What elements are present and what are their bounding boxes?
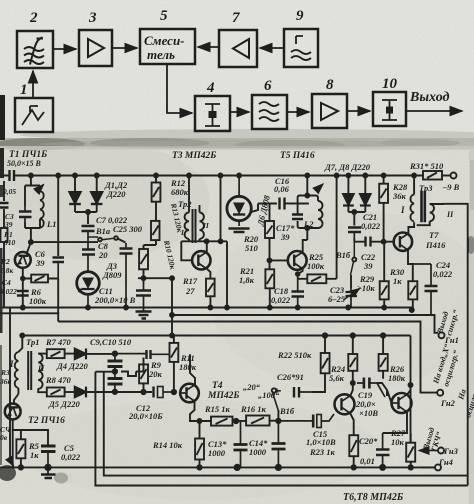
bus D corner down right — [410, 336, 412, 444]
resistor R25 — [298, 274, 337, 283]
wire T5 base — [270, 259, 289, 261]
label C3 — [4, 212, 14, 229]
junction R17 bus A — [208, 306, 212, 310]
label R29 — [357, 274, 375, 293]
capacitor C9 — [108, 354, 123, 372]
junction D3 bottom — [86, 306, 128, 310]
diode D1 — [69, 192, 81, 212]
left edge input chain — [3, 181, 5, 308]
block 4 detector symbol — [205, 104, 220, 126]
label R23 — [309, 447, 336, 457]
junction R20 base — [268, 258, 272, 262]
label C25 — [113, 224, 143, 234]
block 2 box — [17, 31, 53, 68]
capacitor C19 series — [357, 378, 385, 398]
block 3 amp triangle — [88, 39, 104, 57]
junction rail D6 — [237, 174, 241, 178]
resistor R22 — [321, 333, 330, 373]
label R8 — [45, 375, 72, 385]
diode D7 — [343, 194, 354, 212]
wire T7 collector to Tr3 — [408, 222, 414, 233]
wire T6 emitter to R23 — [350, 413, 354, 435]
resistor R31 — [423, 171, 442, 180]
label T3 — [172, 151, 216, 161]
wire busD left drop to Tr1 — [18, 334, 24, 353]
label R20 — [243, 234, 259, 253]
resistor R17 — [206, 279, 215, 308]
capacitor C6 — [53, 258, 65, 279]
label R31 — [409, 161, 444, 171]
label R30 — [389, 267, 405, 286]
junction Tr2 I top — [187, 174, 191, 178]
label R9 — [148, 360, 163, 379]
label R5 — [28, 441, 40, 460]
junction C9 C10 node — [95, 369, 117, 373]
junction R32 busA — [410, 308, 414, 312]
label Gn1 — [444, 335, 459, 345]
junction rail-L1 — [29, 174, 33, 178]
wire T8 collector — [408, 383, 413, 394]
junction R21 busA — [268, 306, 272, 310]
junction R11 bottom — [172, 390, 176, 394]
label R1 — [3, 230, 16, 247]
label II tr2 — [202, 221, 210, 230]
block 8 box — [312, 94, 347, 128]
label R16 — [240, 404, 267, 414]
label B1b — [335, 250, 351, 260]
terminal Gn2 — [437, 390, 443, 396]
junction T1 emitter busA — [21, 277, 25, 310]
label 4 — [206, 80, 215, 96]
capacitor C10b plates — [115, 350, 170, 359]
label D4 — [56, 361, 88, 371]
capacitor C5 — [41, 444, 56, 470]
resistor R14 — [195, 421, 204, 470]
capacitor C1 series in rail — [10, 170, 15, 181]
label 2 — [29, 10, 38, 26]
wire C6 column — [57, 176, 59, 257]
transistor T3 — [192, 251, 210, 269]
label R12 — [170, 178, 189, 197]
ground below C11 — [136, 312, 152, 319]
wire T1 base to switch row — [27, 242, 98, 253]
label R2 — [0, 257, 13, 275]
label -9V — [442, 182, 460, 192]
label R7 — [45, 337, 72, 347]
label R15 — [204, 404, 231, 414]
label T5 — [280, 151, 315, 161]
junction T1 base node — [29, 240, 33, 244]
label C8 — [98, 241, 109, 260]
capacitor C21 — [348, 228, 361, 239]
wire T3 emitter to R17 — [207, 269, 211, 279]
wire right column from rail — [335, 174, 339, 279]
wire branch x220 — [219, 174, 223, 244]
label D7D8 — [324, 162, 371, 172]
transistor T4 — [180, 384, 199, 403]
label T4 — [207, 381, 239, 401]
resistor R11 — [170, 336, 179, 393]
terminal Gn1 — [439, 332, 445, 338]
label C11 — [94, 286, 136, 305]
junction C10 bottom — [113, 390, 117, 394]
label L1 — [46, 219, 56, 229]
label R3 — [0, 368, 12, 386]
frame outer left vertical — [95, 372, 467, 486]
resistor R28 — [379, 174, 388, 242]
block 1 sweep symbol — [22, 106, 44, 125]
transistor T6 — [335, 394, 355, 414]
label R21 — [239, 266, 255, 285]
block 1 box — [15, 98, 53, 132]
resistor R20 — [265, 204, 274, 270]
capacitor C7 — [82, 226, 95, 237]
label Gn3 — [443, 446, 459, 456]
transformer Tr3 winding II — [417, 204, 443, 225]
output text — [409, 90, 450, 105]
block 4 box — [195, 96, 230, 131]
label C14 — [249, 438, 268, 457]
label D6rot — [255, 194, 272, 228]
capacitor C12 electrolytic — [152, 387, 174, 398]
label C17 — [276, 223, 295, 242]
label K28 — [392, 182, 408, 201]
transformer Tr2 core — [193, 209, 196, 243]
resistor R16 — [246, 416, 278, 426]
label C4b — [0, 425, 11, 442]
label B1a — [95, 226, 111, 236]
junction R30 busA — [382, 306, 386, 310]
transistor T8 — [392, 393, 412, 413]
wire left border down — [9, 308, 11, 464]
label II tr1 — [37, 364, 45, 373]
mixer text — [144, 33, 185, 62]
transformer Tr1 core — [28, 351, 31, 390]
label out gkch rot — [421, 426, 444, 453]
label R6 — [29, 287, 47, 306]
capacitor C22 series — [366, 237, 371, 247]
junction C23 busA — [346, 306, 350, 310]
block 3 box — [79, 30, 112, 66]
resistor R12 — [152, 183, 161, 202]
label out sync rot — [435, 309, 461, 337]
wire D8 branch — [363, 174, 367, 194]
block 7 box — [219, 30, 257, 67]
wire C26 to R22 — [312, 373, 325, 392]
frame right border — [443, 204, 468, 486]
wire 5 to 4 — [167, 64, 192, 113]
wire D1 branch — [73, 174, 77, 192]
ground below D6 — [229, 229, 250, 233]
wire C16 row — [251, 204, 309, 213]
label Gn2 — [440, 398, 456, 408]
wire node C11 top — [138, 276, 175, 283]
block 6 box — [252, 95, 287, 129]
switch B1b-2 range — [272, 388, 279, 421]
trimmer arrow on L1 — [36, 185, 44, 193]
transformer Tr2 winding I — [185, 176, 189, 242]
label 005 — [3, 187, 16, 196]
label 3 — [88, 10, 97, 26]
junction C18 busA — [296, 272, 300, 309]
label I tr2 — [180, 228, 185, 237]
arrow 2 to 3 — [53, 48, 76, 50]
switch B1b — [351, 242, 357, 288]
emitter arrow T2 — [10, 460, 14, 466]
block 2 tuner symbol — [24, 38, 44, 65]
capacitor C18 — [292, 269, 305, 308]
capacitor C1a left — [0, 203, 9, 208]
transformer Tr3 winding I — [410, 174, 416, 222]
label R27 — [390, 428, 406, 447]
block 5 box (mixer) — [140, 29, 195, 64]
resistor R26 — [379, 333, 388, 379]
zener D3 — [77, 272, 100, 308]
label R11 — [179, 353, 197, 372]
block 6 filter symbol — [259, 102, 279, 121]
resistor R27 potentiometer — [406, 433, 415, 470]
capacitor C15 electrolytic — [278, 414, 334, 428]
arrow 4 to 6 — [230, 111, 249, 113]
capacitor C11 electrolytic — [136, 283, 151, 312]
trimmer arrow L2 — [316, 184, 323, 191]
label C16 — [274, 176, 290, 194]
label C13 — [208, 439, 227, 458]
wire branch x227 to busA — [221, 241, 230, 309]
block 10 detector symbol — [382, 100, 397, 120]
resistor R10 — [139, 249, 148, 269]
capacitor C26 — [277, 387, 312, 398]
resistor R13 — [151, 221, 160, 240]
bus A mid horizontal — [2, 307, 412, 309]
label C5 — [61, 443, 81, 462]
resistor R30 — [380, 242, 389, 308]
label R10rot — [162, 238, 178, 270]
label I tr3 — [400, 205, 405, 215]
wire T7 base row — [354, 238, 393, 242]
label D1D2 — [104, 180, 128, 199]
label Tr1 — [26, 337, 39, 347]
label sw100 — [258, 390, 280, 400]
wire D2 branch — [95, 174, 99, 192]
label R22 — [277, 350, 312, 360]
wire T6 collector — [351, 371, 355, 396]
label na osc rot — [456, 384, 474, 419]
label osc X rot — [431, 343, 461, 388]
arrow 9 to 7 — [260, 47, 284, 49]
diode D2 — [91, 192, 103, 212]
bus B left jog to bus C — [0, 313, 58, 321]
capacitor C2 tank — [19, 206, 32, 223]
block 10 box — [373, 92, 406, 126]
block numbers — [20, 8, 398, 98]
arrow Gn3 to R27 — [419, 450, 438, 452]
transformer Tr1 winding II — [38, 354, 47, 393]
wire T1 emitter down — [22, 268, 24, 308]
ground bus bottom — [0, 466, 435, 468]
wire D7 D8 node — [348, 210, 365, 226]
label R13rot — [169, 201, 185, 233]
label R17 — [182, 276, 198, 296]
label 1 — [20, 82, 28, 98]
arrow 8 to 10 — [347, 110, 370, 112]
label C6 — [35, 249, 46, 268]
label R24 — [329, 364, 345, 383]
resistor R24 — [348, 333, 357, 371]
label L2 — [303, 219, 314, 229]
resistor R5 — [16, 439, 25, 469]
wire T8 emitter — [383, 412, 407, 434]
resistor R21 — [265, 269, 274, 307]
label II tr3 — [446, 210, 454, 219]
capacitor C10 — [108, 372, 123, 392]
block 9 box — [284, 29, 318, 67]
label C21 — [361, 212, 381, 231]
label Tr3 — [419, 183, 433, 193]
diode D8 — [360, 194, 371, 212]
label C24 — [433, 260, 453, 279]
resistor R15 — [211, 417, 246, 426]
label sw20 — [243, 382, 261, 392]
inductor L2 tank — [285, 176, 323, 241]
wire T4 collector up — [190, 354, 195, 384]
transistor T5 — [288, 251, 307, 270]
frame inner left vertical — [104, 372, 468, 476]
resistor R32 emitter — [408, 281, 417, 312]
resistor R9 — [139, 364, 148, 394]
junction rail-C6 — [56, 174, 60, 178]
wire D7 branch — [346, 174, 350, 194]
label R14 — [152, 440, 183, 450]
wire Tr1-I bottom to T2 — [14, 394, 18, 404]
junction rail L2 — [305, 174, 309, 231]
label T2 — [28, 416, 65, 426]
block 9 generator symbol — [291, 36, 311, 60]
trimmer C23 — [344, 288, 360, 308]
transformer Tr3 core — [422, 191, 425, 222]
label R26 — [388, 364, 406, 383]
block 7 amp triangle left — [233, 39, 249, 58]
label 6 — [264, 78, 272, 94]
wire T8 base from C19 — [377, 383, 392, 403]
label R25 — [307, 252, 325, 271]
label C22 — [361, 252, 376, 271]
label Tr2 — [178, 199, 192, 209]
junction R15 R16 — [234, 419, 238, 423]
resistor R7 — [47, 349, 75, 358]
label C7 — [96, 215, 128, 225]
capacitor C4 — [17, 291, 29, 296]
resistor R1 left — [1, 228, 8, 242]
label C26 — [277, 372, 304, 382]
capacitor C24 — [413, 264, 438, 315]
arrow 6 to 8 — [287, 111, 309, 113]
label C19 — [355, 390, 378, 418]
label 10 — [382, 76, 398, 92]
wire T7 emitter — [408, 250, 413, 281]
label D5 — [48, 399, 80, 409]
transistor T1 — [15, 252, 31, 268]
label 9 — [296, 8, 304, 24]
top supply rail — [2, 175, 451, 177]
label 5 — [160, 8, 168, 24]
caption T6T8 — [343, 492, 404, 503]
capacitor C13 — [234, 421, 248, 470]
junction D4 line — [113, 351, 117, 355]
resistor R23 — [349, 435, 358, 469]
wire T3 collector up — [206, 241, 208, 252]
arrow 7 to 5 — [198, 46, 219, 48]
label B1b2 — [279, 406, 295, 416]
label C15 — [306, 429, 336, 447]
label C18 — [271, 286, 291, 305]
capacitor C14 — [272, 421, 286, 470]
resistor R6 — [23, 275, 58, 314]
label C20 — [359, 436, 378, 466]
capacitor C16 — [280, 198, 285, 210]
capacitor C8 — [82, 237, 95, 271]
ground below C5 — [41, 467, 56, 478]
junction R28 base row — [382, 240, 386, 244]
label C4 — [0, 278, 17, 296]
wire R12 column — [144, 174, 159, 279]
label 8 — [326, 77, 334, 93]
arrow 1 to 2 — [32, 71, 34, 98]
label I tr1 — [9, 359, 14, 369]
wire C9 node to R9 — [121, 358, 144, 377]
label C12 — [128, 403, 163, 421]
capacitor C20 — [376, 433, 390, 470]
bus D horizontal — [22, 335, 410, 337]
inductor L1 — [25, 186, 44, 229]
wire T5 collector to L2 — [303, 240, 308, 252]
wire L1 branch from rail — [30, 176, 32, 186]
capacitor C17 — [292, 215, 303, 220]
terminal -9V — [451, 173, 457, 179]
terminal Gn4 — [421, 464, 441, 470]
junction R16 C14 — [276, 419, 280, 423]
diode D4 — [75, 349, 115, 360]
label Gn4 — [438, 457, 453, 467]
wire tank to T1 base — [30, 228, 32, 242]
capacitor C25 — [120, 243, 133, 308]
wire x172 vertical to bus D — [170, 278, 174, 337]
block 8 amp triangle — [321, 103, 338, 120]
label 7 — [232, 10, 240, 26]
transistor T7 — [394, 233, 412, 251]
wire T2 emitter — [13, 419, 48, 467]
junction T4 R14 — [198, 419, 202, 423]
diode D5 — [75, 387, 152, 398]
transistor T2 — [5, 404, 21, 420]
zener D6 — [227, 176, 251, 227]
label D3 — [102, 261, 122, 280]
label C9C10 — [90, 337, 132, 347]
terminal Gn3 — [438, 448, 444, 454]
bus C to Gn2 — [58, 322, 437, 393]
transformer Tr2 winding II — [200, 205, 204, 241]
arrow 3 to 5 — [112, 47, 137, 49]
bus E to Gn1 — [170, 313, 438, 333]
transformer Tr1 winding I — [15, 352, 19, 394]
label T1 — [7, 150, 47, 168]
wire diode node — [75, 210, 97, 224]
arrow 10 to output — [406, 110, 462, 112]
wire T4 emitter down — [190, 401, 211, 421]
label C23 — [328, 285, 346, 304]
label T7 — [425, 230, 446, 250]
resistor R8 — [47, 388, 75, 397]
